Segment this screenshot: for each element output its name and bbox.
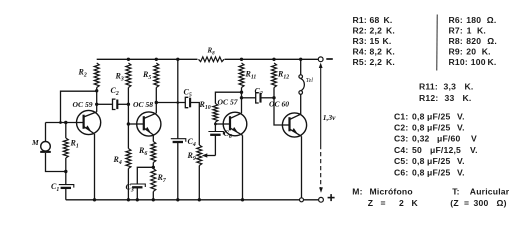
svg-text:R5: R5 [142, 70, 151, 81]
OC60 emitter [290, 129, 302, 136]
capacitor C1 [65, 172, 67, 185]
feedback wire collector to base [61, 91, 97, 122]
svg-text:R1:68K.: R1:68K. [353, 15, 393, 25]
svg-text:R12:33K.: R12:33K. [419, 93, 472, 103]
svg-text:R10:100K.: R10:100K. [449, 57, 497, 67]
transistor OC58 [137, 112, 161, 136]
wire C2 to R3 column [117, 103, 128, 105]
OC57 emitter [230, 128, 243, 135]
svg-text:R5:2,2K.: R5:2,2K. [353, 57, 396, 67]
base wire OC58 [128, 123, 137, 125]
transistor OC59 [77, 110, 101, 134]
resistor R2 [94, 63, 99, 88]
svg-text:R9: R9 [187, 151, 196, 162]
OC60 emitter to ground [301, 136, 303, 197]
svg-text:M:MicrófonoT:Auricular: M:MicrófonoT:Auricular [352, 186, 509, 196]
OC58 emitter resistor chain [152, 135, 154, 142]
positive terminal [319, 197, 324, 202]
resistor R3 [126, 63, 131, 88]
svg-text:C6:0,8μF/25V.: C6:0,8μF/25V. [394, 167, 465, 177]
svg-text:C2: C2 [111, 86, 119, 97]
svg-text:OC 59: OC 59 [73, 100, 93, 109]
node collector / C7 [240, 96, 243, 99]
node C2/R3 [127, 103, 130, 106]
OC57 collector [230, 113, 242, 118]
wire C6 to wiper [214, 135, 216, 155]
negative terminal [318, 57, 323, 62]
resistor R4 [127, 124, 129, 149]
capacitor C6 [214, 124, 216, 132]
svg-text:R11: R11 [245, 70, 257, 81]
svg-text:C2:0,8μF/25V.: C2:0,8μF/25V. [394, 123, 465, 133]
node base/R1 [64, 121, 67, 124]
wire to C2 [97, 103, 113, 105]
wire down to OC60 base [274, 98, 282, 125]
svg-text:R3: R3 [115, 72, 124, 83]
potentiometer R9 [197, 145, 202, 166]
R9 wiper arrow [206, 155, 216, 157]
wire to C7 [242, 97, 256, 99]
resistor R7 [151, 169, 156, 192]
capacitor C2 [113, 99, 116, 109]
transistor OC57 [223, 112, 247, 136]
OC58 collector [144, 113, 157, 118]
svg-text:R8: R8 [207, 47, 216, 57]
svg-text:OC 58: OC 58 [133, 100, 153, 109]
wire top rail to C4 [177, 59, 179, 138]
earphone Tel [299, 58, 302, 61]
svg-text:Tel: Tel [306, 78, 313, 84]
OC59 emitter [84, 126, 95, 133]
svg-text:R6:180Ω.: R6:180Ω. [449, 15, 497, 25]
svg-text:R8:820Ω.: R8:820Ω. [449, 36, 497, 46]
svg-text:C4: C4 [188, 137, 196, 148]
node R1/mic [64, 170, 67, 173]
OC59 emitter to ground [94, 134, 96, 200]
svg-text:M: M [31, 138, 39, 147]
svg-text:OC 60: OC 60 [269, 100, 289, 109]
resistor R1 [65, 123, 67, 139]
node R11 / R10 feedback [240, 91, 243, 94]
resistor R11 [240, 58, 243, 61]
resistor R8 (820 ohm, series in top rail) [199, 57, 225, 62]
transistor OC60 [282, 113, 306, 137]
node R12 / C7 / base [272, 96, 275, 99]
node R3 top [127, 58, 130, 61]
svg-text:R7:1K.: R7:1K. [449, 26, 487, 36]
OC57 emitter to ground [242, 135, 244, 200]
capacitor C5 [185, 97, 188, 107]
wire junction to C3 [137, 167, 153, 184]
wire C5 to R9 [190, 103, 199, 146]
svg-text:R11:3,3K.: R11:3,3K. [419, 81, 474, 91]
wire mic top to base [45, 123, 47, 142]
svg-text:R7: R7 [157, 173, 167, 184]
svg-text:R1: R1 [70, 139, 79, 150]
OC59 collector [84, 112, 97, 117]
capacitor C4 [171, 139, 186, 142]
svg-text:C1:0,8μF/25V.: C1:0,8μF/25V. [394, 111, 465, 121]
node R6/R7/C3 [152, 166, 155, 169]
wire collector node to C5 [156, 102, 185, 104]
node top rail / C4 column [176, 58, 179, 61]
capacitor C7 [256, 93, 259, 103]
OC58 emitter [144, 128, 154, 135]
svg-text:R4: R4 [113, 155, 122, 166]
top supply rail (negative) [97, 58, 198, 60]
resistor R6 [151, 142, 156, 163]
svg-text:1,3v: 1,3v [323, 113, 336, 122]
svg-text:R2:2,2K.: R2:2,2K. [353, 26, 396, 36]
node R2/collector/feedback [95, 89, 98, 92]
svg-text:C1: C1 [51, 182, 59, 193]
svg-text:R12: R12 [277, 70, 289, 81]
base wire OC59 [46, 122, 77, 124]
divider line [436, 15, 438, 71]
wire mic bottom [46, 153, 66, 172]
svg-text:R4:8,2K.: R4:8,2K. [353, 47, 396, 57]
node C2 tap [95, 103, 98, 106]
resistor R5 [155, 58, 158, 61]
base wire OC57 [215, 123, 223, 125]
wire C7 to base node [261, 97, 275, 99]
svg-text:R6: R6 [138, 146, 147, 157]
svg-text:R9:20K.: R9:20K. [449, 47, 491, 57]
node R10 bottom / base OC57 [214, 122, 216, 124]
capacitor C3 [130, 184, 145, 187]
svg-text:R2: R2 [78, 68, 87, 79]
resistor R12 [272, 58, 275, 61]
svg-text:C3:0,32μF/60V: C3:0,32μF/60V [394, 134, 477, 144]
node base OC58 [127, 122, 130, 125]
node OC58 collector / C5 [155, 101, 158, 104]
wire R2 bottom to collector column [96, 88, 98, 112]
svg-text:R10: R10 [199, 100, 211, 111]
resistor R10 [213, 104, 218, 123]
wire R10 top to collector node [215, 92, 241, 103]
battery 1.3V dashed line with arrows [319, 63, 323, 68]
svg-text:C4:50μF/12,5V.: C4:50μF/12,5V. [394, 145, 478, 155]
svg-text:C5:0,8μF/25V.: C5:0,8μF/25V. [394, 156, 465, 166]
svg-text:Z=2K(Z=300Ω): Z=2K(Z=300Ω) [368, 198, 507, 208]
svg-text:OC 57: OC 57 [218, 98, 239, 107]
OC60 collector [290, 114, 301, 119]
svg-text:R3:15K.: R3:15K. [353, 36, 392, 46]
bottom ground rail [66, 199, 319, 201]
